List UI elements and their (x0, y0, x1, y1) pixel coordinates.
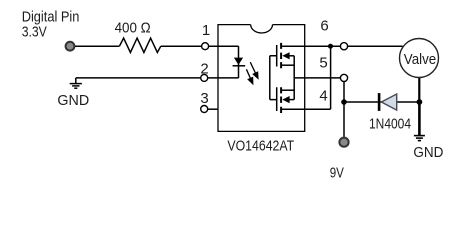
svg-text:GND: GND (57, 92, 89, 109)
svg-text:Valve: Valve (404, 51, 436, 68)
svg-text:6: 6 (320, 17, 328, 34)
svg-text:400 Ω: 400 Ω (115, 19, 151, 36)
svg-text:3.3V: 3.3V (22, 23, 47, 40)
svg-text:4: 4 (319, 88, 327, 105)
svg-text:2: 2 (200, 60, 208, 77)
svg-text:GND: GND (413, 144, 443, 161)
svg-text:9V: 9V (330, 165, 344, 182)
svg-text:1N4004: 1N4004 (369, 115, 411, 132)
svg-text:VO14642AT: VO14642AT (227, 137, 294, 154)
svg-text:1: 1 (202, 22, 210, 39)
svg-text:5: 5 (319, 55, 327, 72)
svg-text:3: 3 (200, 90, 208, 107)
